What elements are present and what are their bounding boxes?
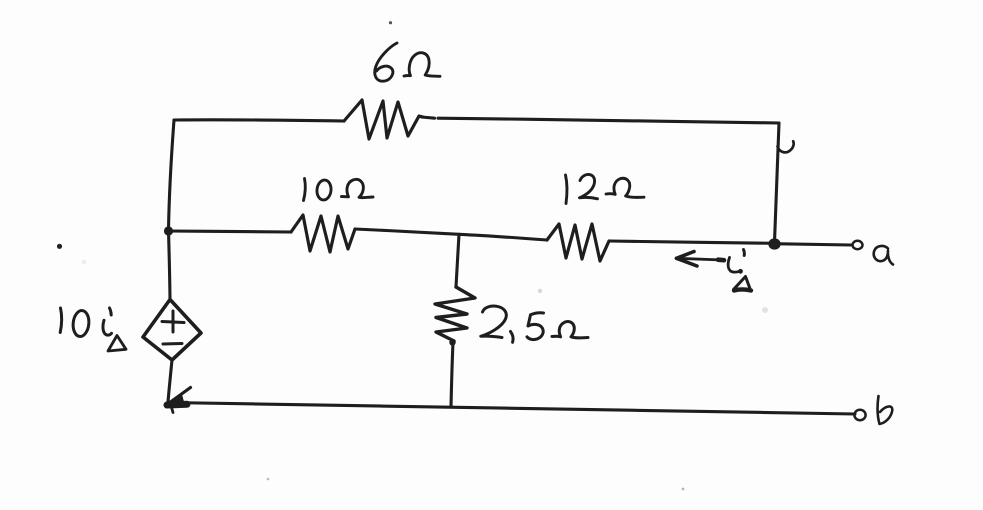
terminal a open circle: [853, 241, 863, 249]
wire: top horizontal left segment: [174, 120, 344, 121]
resistor R1 6Ω zigzag: [344, 100, 423, 139]
resistor R2 10Ω zigzag: [291, 215, 355, 252]
label: letter b: [877, 396, 892, 424]
label: 5 of 2.5Ω: [527, 313, 544, 340]
resistor R4 2.5Ω vertical zigzag: [435, 287, 475, 341]
wire: middle segment R3 to right junction: [609, 241, 774, 243]
faint paper specks: [267, 478, 270, 481]
wire: bottom horizontal: [168, 403, 855, 415]
label: i of i-delta: [728, 258, 740, 273]
wire: junction to terminal a: [780, 244, 851, 245]
label: 1 of 10Ω: [304, 179, 306, 201]
ink blob at bottom of R4: [449, 339, 455, 345]
wire: middle segment R2 to R3: [355, 229, 547, 240]
wire: middle segment from junction to R2: [169, 231, 292, 232]
pen speck near left wire: [57, 244, 62, 249]
wire: left vertical top segment: [169, 120, 175, 230]
resistor R3 12Ω zigzag: [547, 224, 609, 261]
node: left junction dot: [164, 226, 173, 235]
plus sign inside source: [162, 311, 184, 332]
label: 2 of 12Ω: [580, 174, 598, 198]
pen hook on right vertical wire: [778, 141, 794, 152]
label: Ω of 2.5Ω: [552, 322, 588, 338]
arrowhead at bottom-left corner: [167, 393, 185, 407]
label: Ω of 12Ω: [606, 178, 644, 197]
faint speck above 6 label: [389, 21, 392, 24]
wire: right vertical drop: [775, 123, 780, 242]
label: i of 10i gain: [103, 320, 112, 335]
label: 1 of 10i gain: [60, 308, 61, 333]
label: delta subscript of arrow i: [734, 277, 751, 291]
label: 6 of 6Ω: [375, 43, 397, 81]
label: 2 of 2.5Ω: [481, 306, 507, 337]
wire: top horizontal right segment: [422, 117, 780, 123]
label: 0 of 10i gain: [72, 310, 90, 337]
wire: tap from middle wire down to R4: [456, 234, 459, 287]
node: right junction dot: [768, 238, 780, 249]
label: 1 of 12Ω: [566, 175, 567, 204]
current arrow i-delta: [677, 258, 724, 260]
wire: source bottom to bottom-left corner: [168, 360, 172, 402]
label: 0 of 10Ω: [316, 179, 332, 200]
wire: left vertical to source: [169, 231, 171, 300]
label: letter a: [874, 246, 893, 265]
label: comma of 2.5Ω: [511, 332, 514, 343]
label: Ω of 10Ω: [342, 179, 374, 197]
minus sign inside source: [163, 342, 182, 346]
dependent voltage source U1 diamond: [143, 300, 201, 361]
terminal b open circle: [854, 410, 865, 420]
wire: R4 to bottom wire: [451, 342, 453, 407]
label: delta subscript of 10i: [108, 336, 126, 352]
label: Ω of 6Ω: [404, 53, 440, 77]
